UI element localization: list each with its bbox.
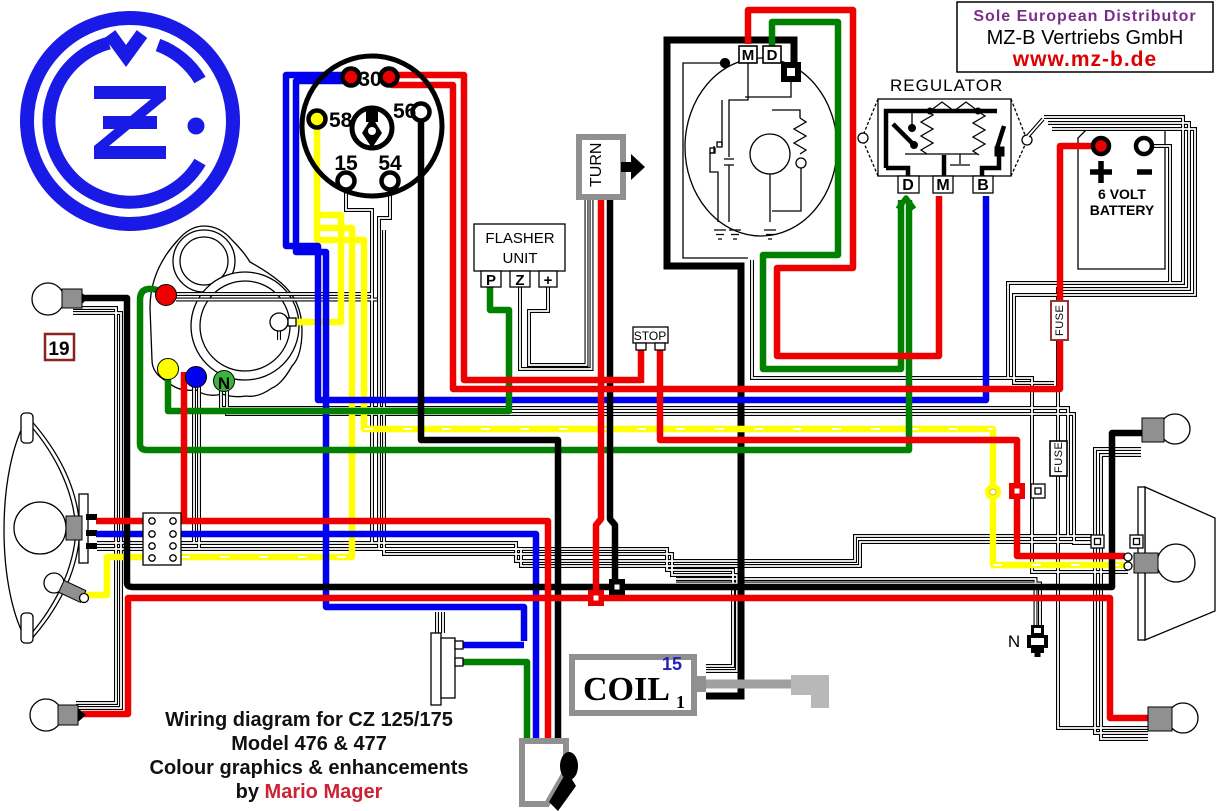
svg-text:by Mario Mager: by Mario Mager [236,781,383,803]
svg-text:TURN: TURN [588,143,605,187]
svg-text:Sole European Distributor: Sole European Distributor [973,8,1196,25]
svg-text:BATTERY: BATTERY [1090,202,1155,218]
svg-text:1: 1 [676,692,685,712]
svg-text:Z: Z [515,272,524,289]
svg-text:D: D [902,177,914,194]
svg-text:Colour graphics & enhancements: Colour graphics & enhancements [150,757,469,779]
svg-text:D: D [767,47,778,64]
svg-text:FUSE: FUSE [1053,442,1065,473]
svg-text:Model 476 & 477: Model 476 & 477 [231,733,387,755]
svg-text:UNIT: UNIT [503,250,538,267]
svg-text:6 VOLT: 6 VOLT [1098,186,1146,202]
svg-text:N: N [218,374,230,393]
svg-text:54: 54 [378,152,402,175]
svg-text:REGULATOR: REGULATOR [890,76,1003,95]
svg-text:www.mz-b.de: www.mz-b.de [1012,48,1157,71]
svg-text:M: M [936,177,949,194]
svg-text:M: M [742,47,755,64]
svg-text:Wiring diagram for CZ 125/175: Wiring diagram for CZ 125/175 [165,709,453,731]
svg-text:COIL: COIL [583,671,670,708]
svg-text:30: 30 [358,68,381,91]
svg-text:FLASHER: FLASHER [485,230,554,247]
svg-text:FUSE: FUSE [1054,305,1066,336]
svg-text:15: 15 [662,654,682,674]
svg-text:P: P [486,272,496,289]
svg-text:56: 56 [393,100,416,123]
svg-text:58: 58 [329,109,353,132]
svg-text:MZ-B Vertriebs GmbH: MZ-B Vertriebs GmbH [987,27,1184,49]
svg-text:15: 15 [334,152,358,175]
svg-text:B: B [977,177,989,194]
svg-text:+: + [544,272,553,289]
svg-text:STOP: STOP [634,329,666,343]
svg-text:N: N [1008,632,1020,651]
svg-text:19: 19 [48,339,69,360]
